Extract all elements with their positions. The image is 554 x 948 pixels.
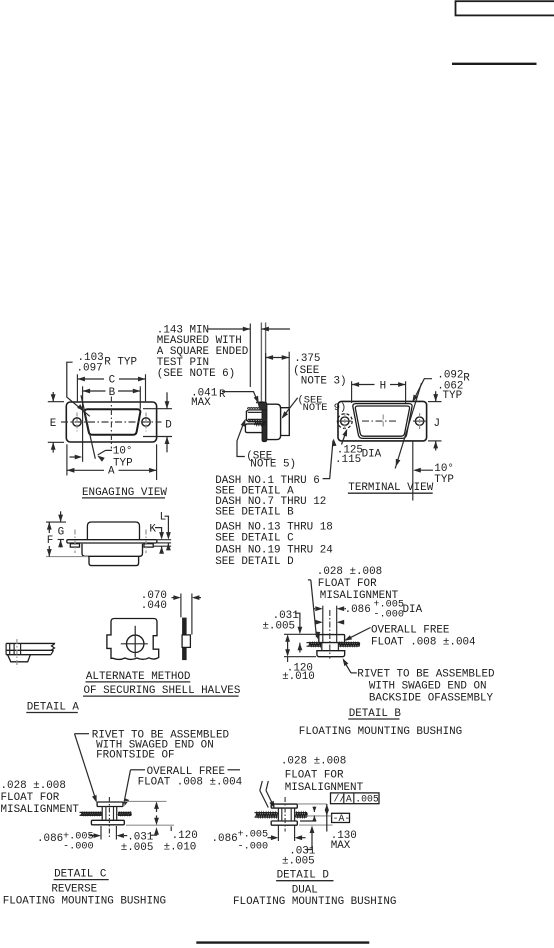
detail D extension lines right <box>298 803 327 805</box>
mating shell (left) with knurled edges <box>246 410 266 422</box>
svg-text:SEE DETAIL C: SEE DETAIL C <box>215 533 294 545</box>
svg-text:REVERSE: REVERSE <box>51 884 97 896</box>
svg-text:DUAL: DUAL <box>292 884 318 896</box>
terminal view right mounting hole <box>415 417 423 425</box>
horizontal centerline <box>61 421 162 423</box>
detail B hole dia extension lines and .086 dim <box>322 606 324 643</box>
detail D bushing top flange <box>271 804 297 808</box>
detail D bushing shaft with rivet <box>277 808 279 821</box>
svg-text:-A-: -A- <box>333 813 351 824</box>
svg-text:DETAIL C: DETAIL C <box>54 869 107 881</box>
test pin (two vertical lines) <box>260 323 262 404</box>
svg-text:MISALIGNMENT: MISALIGNMENT <box>285 782 364 794</box>
svg-text:±.010: ±.010 <box>282 671 315 683</box>
detail A shell-half profile (left) <box>6 642 55 644</box>
svg-text:.086: .086 <box>37 833 63 845</box>
dimension B <box>82 386 84 462</box>
detail B leader from FLOAT text to bushing <box>308 580 317 637</box>
svg-text:E: E <box>50 418 57 430</box>
svg-text:-.000: -.000 <box>63 842 94 853</box>
detail C .086 dimension below <box>100 826 102 840</box>
profile view body <box>82 544 143 557</box>
svg-text:NOTE 3): NOTE 3) <box>301 375 347 387</box>
detail A ear trapezoid <box>8 655 31 662</box>
svg-text:DETAIL A: DETAIL A <box>27 702 80 714</box>
grommet lower block <box>245 424 262 433</box>
svg-text:SEE DETAIL B: SEE DETAIL B <box>215 507 294 519</box>
horizontal rule under title block <box>452 63 537 65</box>
detail D leader lines <box>260 781 263 791</box>
svg-text:RIVET TO BE ASSEMBLED: RIVET TO BE ASSEMBLED <box>357 668 494 680</box>
svg-text:MAX: MAX <box>331 840 351 852</box>
svg-text:FLOAT FOR: FLOAT FOR <box>1 792 60 804</box>
terminal view dashed reference circle (.125/.115 DIA) <box>337 414 352 429</box>
svg-text:DASH NO.19 THRU 24: DASH NO.19 THRU 24 <box>215 544 333 556</box>
detail D centerline <box>284 797 286 832</box>
detail D arrows right side <box>313 807 315 813</box>
leader from dash list to terminal view <box>323 441 333 479</box>
svg-text:FLOAT .008 ±.004: FLOAT .008 ±.004 <box>138 777 243 789</box>
svg-text:H: H <box>380 381 387 393</box>
bottom rule <box>196 941 369 943</box>
svg-text:±.005: ±.005 <box>282 855 315 867</box>
svg-text:.086: .086 <box>212 833 238 845</box>
detail A plate tab <box>182 635 190 648</box>
svg-text:NOTE 9): NOTE 9) <box>303 402 347 414</box>
svg-text:NOTE 5): NOTE 5) <box>250 458 296 470</box>
dimension E <box>48 401 64 403</box>
detail C centerline <box>108 797 110 838</box>
detail D .086 dimension <box>277 826 279 842</box>
svg-text:TYP: TYP <box>113 457 133 469</box>
profile view lower body <box>89 556 139 565</box>
title block rectangle (top right) <box>456 1 554 15</box>
svg-text:MISALIGNMENT: MISALIGNMENT <box>1 804 80 816</box>
svg-text:D: D <box>165 419 172 431</box>
svg-text:FRONTSIDE OF: FRONTSIDE OF <box>96 749 174 761</box>
engaging view insert (D-shaped cavity) <box>85 409 141 435</box>
engaging view shell outline <box>66 402 156 442</box>
detail B bushing top flange <box>319 635 345 643</box>
connector side view rear body <box>267 404 281 439</box>
svg-text:K: K <box>149 524 156 536</box>
dimension C <box>76 374 78 401</box>
dimension A <box>66 444 68 475</box>
detail C panels (hatched) <box>80 811 102 813</box>
detail B centerline <box>329 610 331 659</box>
svg-text:DIA: DIA <box>362 448 382 460</box>
svg-text:G: G <box>58 527 65 539</box>
detail C .120 dimension right <box>125 800 167 802</box>
svg-text:F: F <box>47 535 54 547</box>
svg-text:SEE DETAIL D: SEE DETAIL D <box>215 556 293 568</box>
ear centerlines <box>74 530 76 554</box>
svg-text:FLOATING MOUNTING BUSHING: FLOATING MOUNTING BUSHING <box>233 896 396 908</box>
profile view flange plate <box>67 540 157 543</box>
svg-text:10°: 10° <box>113 445 133 457</box>
detail A centerline <box>16 639 18 667</box>
rear grommet step behind body <box>281 408 290 436</box>
.143 MIN dimension <box>249 324 251 388</box>
insert 10 deg slant extension line <box>81 395 95 459</box>
svg-text:.028 ±.008: .028 ±.008 <box>281 756 346 768</box>
svg-text:B: B <box>109 387 116 399</box>
svg-text:±.010: ±.010 <box>164 842 197 854</box>
svg-text:FLOAT .008 ±.004: FLOAT .008 ±.004 <box>371 636 476 648</box>
.375 dimension <box>265 353 267 403</box>
vertical centerline <box>110 397 112 449</box>
svg-text:DETAIL B: DETAIL B <box>349 708 402 720</box>
detail A shell half clip with circle <box>107 619 159 660</box>
detail D datum -A- box <box>332 813 350 822</box>
svg-text:MAX: MAX <box>191 397 211 409</box>
contact cross-hatch at pin entry <box>257 402 266 409</box>
profile view shell <box>87 522 139 540</box>
svg-text:OVERALL FREE: OVERALL FREE <box>371 625 449 637</box>
svg-text:.086: .086 <box>345 604 371 616</box>
detail A clip circle with crosshair <box>127 635 144 652</box>
engaging view left mounting hole <box>73 418 81 426</box>
svg-text:FLOAT FOR: FLOAT FOR <box>318 578 377 590</box>
svg-text:(SEE NOTE 6): (SEE NOTE 6) <box>157 368 235 380</box>
detail B .120 dimension <box>284 633 317 635</box>
detail B bushing shaft <box>321 643 323 651</box>
engaging view right mounting hole <box>142 418 150 426</box>
svg-text:FLOAT FOR: FLOAT FOR <box>285 769 344 781</box>
svg-text://: // <box>334 793 346 804</box>
svg-text:WITH SWAGED END ON: WITH SWAGED END ON <box>369 681 487 693</box>
detail D panels (hatched) <box>255 812 278 814</box>
dimension D <box>143 408 172 410</box>
connector side view flange (sectioned, dark) <box>262 402 266 441</box>
svg-text:.028 ±.008: .028 ±.008 <box>1 780 66 792</box>
svg-text:DIA: DIA <box>403 604 423 616</box>
svg-text:.097: .097 <box>77 363 103 375</box>
terminal view left mounting hole <box>341 417 349 425</box>
dimension H <box>351 381 353 403</box>
svg-text:.115: .115 <box>335 454 361 466</box>
svg-text:TYP: TYP <box>443 390 463 402</box>
svg-text:TERMINAL VIEW: TERMINAL VIEW <box>348 482 433 494</box>
svg-text:DETAIL D: DETAIL D <box>277 870 329 882</box>
svg-text:-.000: -.000 <box>373 609 404 620</box>
svg-text:R TYP: R TYP <box>104 357 137 369</box>
terminal insert slant extension line <box>395 383 421 469</box>
svg-text:.375: .375 <box>294 353 320 365</box>
dimension F <box>46 521 66 523</box>
svg-text:TYP: TYP <box>434 474 454 486</box>
svg-text:.028 ±.008: .028 ±.008 <box>317 566 382 578</box>
svg-text:R: R <box>463 372 470 384</box>
svg-text:OF SECURING SHELL HALVES: OF SECURING SHELL HALVES <box>84 685 241 697</box>
detail C bushing shaft with rivet <box>101 807 103 821</box>
svg-text:.005: .005 <box>355 793 379 804</box>
terminal view insert outer contour <box>353 404 412 439</box>
detail A rivet plate (filled) <box>182 618 187 661</box>
detail D parallelism feature control frame <box>331 793 380 804</box>
detail B panel right (hatched) <box>339 642 360 644</box>
terminal view centerline horizontal <box>339 420 352 422</box>
dimension G <box>60 511 62 522</box>
dimension J <box>428 401 442 403</box>
svg-text:+.005: +.005 <box>238 829 269 840</box>
detail D bushing bottom flange <box>271 821 297 825</box>
profile view left bushing ear <box>70 544 79 547</box>
detail C bushing top flange (swaged end up) <box>97 802 123 807</box>
terminal view insert inner contour <box>355 406 409 436</box>
right extension lines <box>157 539 171 541</box>
svg-text:BACKSIDE OFASSEMBLY: BACKSIDE OFASSEMBLY <box>369 693 494 705</box>
terminal view shell outline <box>338 401 427 441</box>
detail C bushing bottom flange <box>91 820 124 825</box>
detail B bushing bottom flange (swaged) <box>317 651 345 657</box>
svg-text:-.000: -.000 <box>238 841 269 852</box>
svg-text:R: R <box>219 389 226 401</box>
svg-text:L: L <box>160 512 167 524</box>
svg-text:ENGAGING VIEW: ENGAGING VIEW <box>82 487 167 499</box>
left hole vertical tick <box>76 413 78 432</box>
svg-text:J: J <box>434 418 441 430</box>
svg-text:.120: .120 <box>172 830 198 842</box>
svg-text:FLOATING MOUNTING BUSHING: FLOATING MOUNTING BUSHING <box>299 726 462 738</box>
terminal view hole vertical ticks <box>344 413 346 430</box>
svg-text:C: C <box>109 375 116 387</box>
right hole vertical tick <box>145 413 147 432</box>
svg-text:±.005: ±.005 <box>121 842 154 854</box>
svg-text:FLOATING MOUNTING BUSHING: FLOATING MOUNTING BUSHING <box>3 896 166 908</box>
svg-text:A: A <box>346 793 352 804</box>
svg-text:10°: 10° <box>434 463 454 475</box>
profile view right bushing ear <box>144 544 153 547</box>
detail B panel left (hatched) <box>307 642 321 644</box>
svg-text:±.005: ±.005 <box>262 621 295 633</box>
svg-text:.040: .040 <box>141 600 167 612</box>
